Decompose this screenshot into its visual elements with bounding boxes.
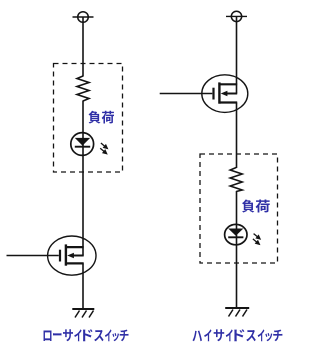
wire: resistor through LED to MOSFET drain (left) [82,101,84,256]
wire: supply to MOSFET source (right) [236,16,238,93]
gate wire (left) [7,255,59,257]
LED emission arrows (right) [253,234,260,245]
MOSFET (left, low-side N-ch) [48,236,96,275]
gate wire (right) [160,93,213,95]
LED (left load) [71,133,94,156]
wire: source to ground (left) [82,263,84,309]
power terminal (right supply) [226,11,247,21]
label ハイサイドスイッチ [192,331,201,342]
wire: MOSFET drain to resistor (right) [236,103,238,169]
label 負荷 (left load) [89,111,101,124]
MOSFET (right, high-side) [202,75,248,113]
LED (right load) [225,224,247,244]
label ローサイドスイッチ [44,330,52,340]
ground (left) [72,309,94,318]
wire: resistor through LED to ground (right) [236,191,238,308]
power terminal (left supply) [73,12,94,23]
LED emission arrows (left) [100,143,107,154]
wire: supply to resistor (left) [82,17,84,77]
ground (right) [225,308,249,317]
label 負荷 (right load) [242,199,254,212]
load dashed box (right) [200,154,278,263]
resistor (right load) [230,168,242,192]
resistor (left load) [77,76,89,101]
load dashed box (left) [54,64,123,173]
